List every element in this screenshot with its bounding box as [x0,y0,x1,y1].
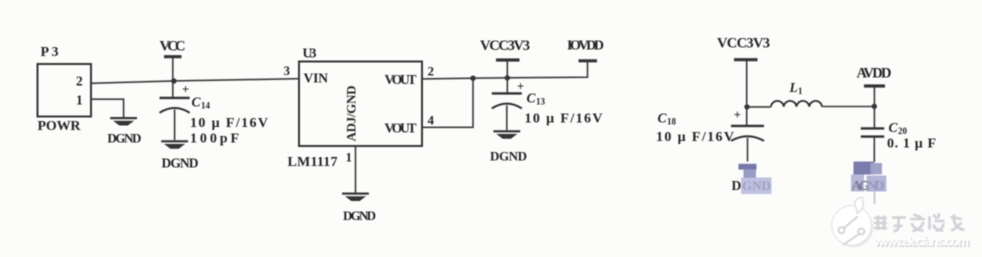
svg-text:10 μ F/16V: 10 μ F/16V [656,130,734,145]
wire VOUT pin4 loop [422,78,473,127]
power VCC3V3 symbol (middle) [480,38,530,93]
power IOVDD symbol [567,39,604,61]
U3 pin number 1 [346,150,353,165]
artifact blue blocks over AGND at C20 [851,162,886,195]
svg-text:IOVDD: IOVDD [567,39,604,54]
power VCC3V3 symbol (right) [717,36,770,127]
capacitor C18 [731,108,764,162]
svg-text:10 μ F/16V: 10 μ F/16V [525,112,603,127]
U3 pin number 2 [428,64,435,79]
U3 pin name VOUT (pin 2) [385,72,417,87]
junction VCC3V3 node [505,75,510,80]
junction L1 left node [744,104,749,109]
U3 value label LM1117 [288,155,338,170]
U3 pin number 4 [428,113,435,128]
U3 pin name ADJ/GND (rotated) [344,86,359,142]
watermark logo circle [832,197,874,247]
svg-text:D: D [732,178,742,193]
svg-text:LM1117: LM1117 [288,155,338,170]
svg-text:+: + [517,80,524,94]
wire VOUT pin2 net to IOVDD [422,62,588,79]
svg-text:VOUT: VOUT [385,72,417,87]
svg-text:1: 1 [346,150,353,165]
inductor L1 label [789,80,804,96]
junction L1 right node [872,104,877,109]
svg-text:C: C [658,111,668,126]
svg-text:+: + [734,108,741,122]
capacitor C14 refdes label [192,95,211,111]
connector P3 refdes label [41,45,59,60]
svg-text:2: 2 [76,74,83,89]
junction VCC node [171,78,176,83]
svg-text:18: 18 [667,117,677,127]
svg-text:VCC3V3: VCC3V3 [717,36,770,52]
wire P3 pin2 to U3 VIN pin3 [91,79,299,84]
svg-text:P3: P3 [41,45,59,60]
ground DGND at P3 pin1 [107,117,141,145]
connector P3 pin number 2 [76,74,83,89]
svg-text:+: + [182,83,189,97]
ground DGND at U3 pin1 [342,193,376,224]
svg-text:DGND: DGND [107,130,141,145]
junction pin4/pin2 net [470,76,475,81]
svg-text:www.elecfans.com: www.elecfans.com [873,234,969,249]
svg-text:C: C [889,120,899,135]
capacitor C20 refdes label [889,120,908,136]
svg-text:10 μ F/16V: 10 μ F/16V [190,116,268,131]
power VCC symbol [160,39,186,99]
capacitor C14 value 100pF [190,132,239,147]
capacitor C13 value 10uF/16V [525,112,603,127]
svg-text:14: 14 [201,101,211,111]
svg-text:20: 20 [898,126,908,136]
svg-text:U3: U3 [303,46,317,61]
svg-text:1: 1 [798,86,803,96]
artifact blue blocks over DGND at C18 [732,164,772,194]
svg-text:AVDD: AVDD [857,66,892,82]
svg-text:0. 1 μ F: 0. 1 μ F [887,137,936,152]
svg-text:VIN: VIN [304,71,329,86]
capacitor C18 value 10uF/16V [656,130,734,145]
ground DGND at C14 [161,140,199,170]
svg-text:DGND: DGND [343,208,376,223]
svg-text:POWR: POWR [38,119,82,134]
U3 pin number 3 [284,63,291,78]
power AVDD symbol [857,66,892,129]
wire P3 pin1 to ground [91,99,124,117]
svg-text:L: L [789,80,798,95]
U3 pin name VOUT (pin 4) [385,121,417,136]
watermark url text [873,234,970,250]
connector P3 value label POWR [38,119,82,134]
ground DGND at C13 [490,130,527,163]
svg-text:3: 3 [284,63,291,78]
capacitor C14 [160,83,190,141]
IC U3 regulator box [299,62,422,147]
faint wire stub below AGND [874,192,876,205]
inductor L1 [747,101,874,107]
U3 refdes label [303,46,317,61]
capacitor C20 value 0.1uF [887,137,936,152]
svg-text:C: C [192,95,202,110]
svg-text:VCC3V3: VCC3V3 [480,38,530,54]
wire U3 pin1 to ground [355,147,357,193]
capacitor C20 [861,128,884,162]
svg-text:VOUT: VOUT [385,121,417,136]
svg-text:100pF: 100pF [190,132,239,147]
svg-text:13: 13 [536,97,546,107]
connector P3 pin number 1 [76,93,83,108]
capacitor C13 [492,80,524,131]
svg-text:VCC: VCC [160,39,186,55]
svg-text:C: C [527,91,537,106]
capacitor C18 refdes label [658,111,677,127]
capacitor C14 value 10uF/16V [190,116,268,131]
svg-text:DGND: DGND [162,155,199,170]
connector P3 box [38,64,92,117]
svg-text:2: 2 [428,64,435,79]
U3 pin name VIN [304,71,329,86]
watermark chinese glyph blobs [874,214,965,232]
svg-text:1: 1 [76,93,83,108]
svg-text:4: 4 [428,113,435,128]
capacitor C13 refdes label [527,91,546,107]
svg-text:DGND: DGND [490,148,527,163]
svg-text:ADJ/GND: ADJ/GND [344,86,359,142]
